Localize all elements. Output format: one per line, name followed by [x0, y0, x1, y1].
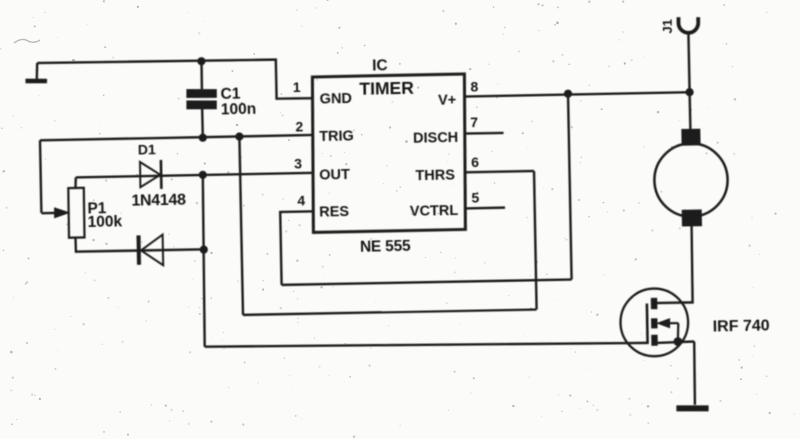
wire: THRS link vertical up	[534, 171, 537, 309]
svg-text:8: 8	[470, 78, 478, 94]
svg-text:IC: IC	[372, 57, 388, 74]
label IC	[372, 57, 388, 74]
wire: IC pin 4 stub and down	[280, 211, 314, 285]
svg-text:VCTRL: VCTRL	[410, 203, 459, 220]
wire: ground to C1 junction to IC pin 1 (GND net)	[37, 58, 313, 104]
wire: IC pin 5 stub (VCTRL, n.c.)	[464, 206, 505, 209]
potentiometer P1 body	[68, 188, 85, 238]
svg-text:1N4148: 1N4148	[131, 191, 186, 209]
pin label DISCH	[413, 130, 458, 147]
node: junction TRIG / C1	[199, 134, 207, 142]
wire: C1 top lead	[200, 61, 203, 89]
svg-text:D1: D1	[138, 141, 156, 157]
pin number 1	[293, 79, 301, 95]
svg-text:J1: J1	[659, 19, 674, 34]
motor M1 top brush	[682, 129, 700, 145]
node: junction D2 / gate branch	[200, 245, 208, 253]
pin number 5	[471, 189, 479, 205]
svg-text:3: 3	[294, 155, 302, 171]
svg-text:TRIG: TRIG	[319, 129, 354, 146]
transistor Q1 drain channel bar	[651, 298, 658, 309]
wire: IC pin 7 stub (DISCH, n.c.)	[464, 132, 503, 135]
svg-text:2: 2	[295, 118, 303, 134]
svg-text:GND: GND	[320, 91, 353, 108]
label D1	[138, 141, 156, 157]
wire: source to ground	[694, 342, 696, 405]
svg-text:OUT: OUT	[319, 167, 350, 184]
label 1N4148	[131, 191, 186, 209]
label TIMER	[359, 77, 414, 98]
wire: THRS link horizontal	[243, 309, 537, 315]
potentiometer P1 wiper arrow	[55, 208, 69, 217]
label P1	[87, 200, 107, 217]
transistor Q1 IRF740 body circle	[620, 288, 689, 357]
op-amp/IC U1 NE555 body	[310, 74, 467, 232]
svg-text:DISCH: DISCH	[413, 130, 458, 147]
wire: RES-to-V+ link horizontal	[282, 279, 572, 285]
motor M1 body	[654, 143, 729, 218]
wire: motor to IRF740 drain	[655, 226, 693, 303]
capacitor C1 (plates)	[186, 93, 217, 106]
wire: C1 bottom lead	[201, 109, 204, 137]
svg-text:V+: V+	[438, 92, 456, 108]
faint scan smudge top-left	[14, 39, 40, 43]
wire: IC pin 6 stub	[464, 171, 534, 172]
label 100k	[87, 213, 122, 231]
wire: J1 down to V+ junction	[688, 32, 689, 92]
pin label OUT	[319, 167, 350, 184]
wire: TRIG net horizontal (pot wiper to IC pin 2)	[40, 135, 314, 140]
wire: OUT net horizontal (P1 top / D1 / IC pin 3)	[76, 173, 314, 178]
svg-text:5: 5	[471, 189, 479, 205]
pin number 3	[294, 155, 302, 171]
svg-text:6: 6	[471, 154, 479, 170]
svg-text:4: 4	[297, 193, 305, 209]
label IRF 740	[713, 318, 770, 336]
wire: V+ net (IC pin 8 to motor/J1)	[465, 92, 690, 96]
svg-text:TIMER: TIMER	[359, 77, 414, 98]
pin label THRS	[415, 167, 455, 184]
ground GND1 (supply ground, top-left)	[25, 63, 47, 82]
svg-text:7: 7	[470, 114, 478, 130]
pin number 8	[470, 78, 478, 94]
svg-text:100k: 100k	[87, 213, 122, 231]
node: junction OUT / gate branch	[199, 171, 207, 179]
node: junction V+ / RES link	[564, 90, 572, 98]
label C1	[220, 86, 241, 103]
svg-text:RES: RES	[319, 204, 349, 221]
wire: TRIG to P1 wiper	[40, 140, 41, 213]
pin number 7	[470, 114, 478, 130]
label J1 (rotated)	[659, 19, 674, 34]
pin label VCTRL	[410, 203, 459, 220]
label 100n	[221, 101, 257, 119]
node: junction source / body	[673, 337, 682, 346]
connector J1 (socket symbol)	[678, 17, 698, 33]
motor M1 bottom brush	[682, 210, 701, 226]
svg-text:THRS: THRS	[415, 167, 455, 184]
transistor Q1 body channel bar	[651, 318, 658, 328]
wire: RES-to-V+ link vertical	[568, 94, 572, 280]
wire: IRF740 source lead	[657, 342, 694, 343]
transistor Q1 gate bar	[646, 303, 649, 344]
pin label GND	[320, 91, 353, 108]
node: junction top wire / C1	[197, 57, 205, 65]
diode D2 (triangle)	[141, 235, 163, 266]
diode D1 (triangle)	[140, 162, 161, 188]
pin label V+	[438, 92, 456, 108]
diode D1 cathode bar	[160, 160, 163, 189]
pin number 2	[295, 118, 303, 134]
pin number 6	[471, 154, 479, 170]
label NE 555	[360, 238, 411, 256]
diode D2 cathode bar	[136, 235, 141, 264]
wire: wiper lead	[41, 212, 57, 215]
wire: V+ junction to motor	[688, 92, 691, 130]
pin number 4	[297, 193, 305, 209]
wire: P1 top lead	[74, 177, 77, 188]
svg-text:1: 1	[293, 79, 301, 95]
node: junction TRIG / THRS branch	[235, 132, 243, 140]
node: junction V+ / J1-motor	[685, 88, 693, 96]
wire: OUT junction down to gate line	[201, 175, 206, 347]
transistor Q1 body arrow	[658, 319, 679, 341]
pin label RES	[319, 204, 349, 221]
transistor Q1 source channel bar	[651, 335, 658, 346]
wire: TRIG branch down	[239, 137, 243, 315]
ground GND2 (power ground, bottom-right)	[676, 408, 708, 409]
svg-text:NE 555: NE 555	[360, 238, 411, 256]
wire: gate line to IRF740 gate	[205, 338, 647, 351]
pin label TRIG	[319, 129, 354, 146]
svg-text:100n: 100n	[221, 101, 257, 119]
wire: P1 bottom lead to D2 to junction	[75, 235, 203, 252]
svg-text:IRF 740: IRF 740	[713, 318, 770, 336]
